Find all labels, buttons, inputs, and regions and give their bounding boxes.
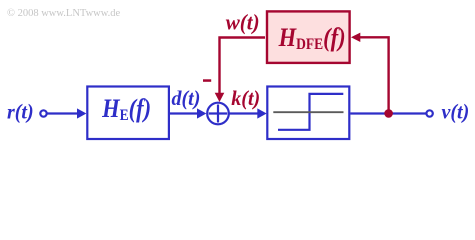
svg-text:r(t): r(t): [7, 99, 34, 124]
svg-text:© 2008 www.LNTwww.de: © 2008 www.LNTwww.de: [7, 8, 121, 19]
svg-text:v(t): v(t): [442, 99, 470, 124]
svg-text:k(t): k(t): [231, 85, 260, 110]
svg-text:w(t): w(t): [226, 10, 260, 35]
svg-text:d(t): d(t): [172, 85, 201, 110]
